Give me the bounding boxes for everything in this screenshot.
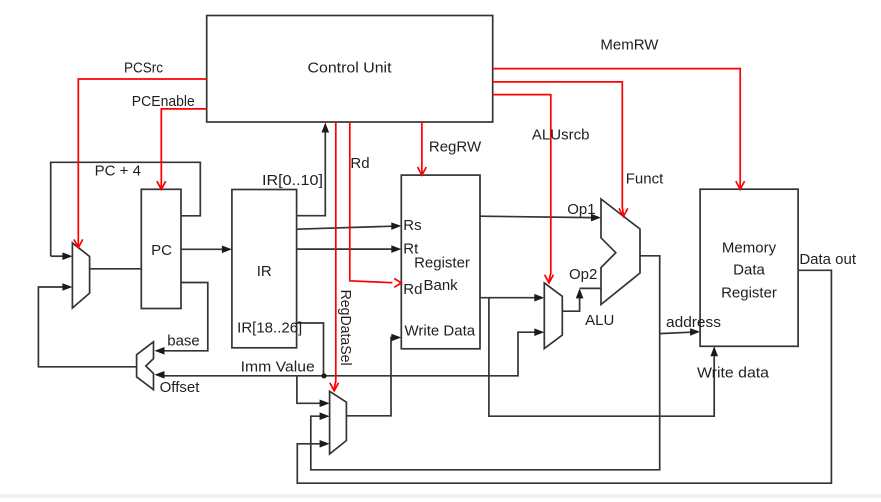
IR register box [232, 190, 297, 348]
arrowhead mux M3 input 1 [534, 294, 544, 302]
svg-text:Rd: Rd [350, 155, 369, 172]
svg-text:PC: PC [151, 242, 172, 259]
mux M2 RegDataSel mux [330, 391, 347, 454]
svg-text:Register: Register [721, 284, 777, 301]
svg-text:IR[18..26]: IR[18..26] [237, 319, 302, 336]
svg-text:ALU: ALU [585, 312, 614, 329]
svg-text:Op2: Op2 [569, 266, 597, 283]
svg-text:IR: IR [257, 263, 272, 280]
junction node on Imm Value line [321, 373, 326, 378]
memory data register box [700, 189, 798, 346]
wire Rs from IR to register bank [297, 226, 393, 229]
svg-text:Data: Data [733, 261, 765, 278]
svg-text:Imm Value: Imm Value [241, 359, 315, 376]
arrowhead adder base input [155, 347, 165, 355]
PC register box [141, 189, 181, 308]
arrowhead mux M2 output into register bank [391, 334, 401, 342]
svg-text:ALUsrcb: ALUsrcb [532, 127, 590, 144]
svg-text:RegRW: RegRW [429, 139, 482, 156]
control unit U: Control Unit box [207, 16, 493, 123]
arrowhead adder offset input [155, 371, 165, 379]
svg-text:IR[0..10]: IR[0..10] [262, 172, 323, 189]
wire RegDataSel (red) [334, 122, 336, 389]
wire write data branch to memory data register [489, 298, 714, 417]
wire Imm Value line to adder offset and to mux M3 input 2 [164, 332, 535, 376]
arrowhead mux M1 input 1 [62, 252, 72, 260]
arrowhead Funct (red open, down) [619, 208, 628, 216]
PC+4 block (open outline) [51, 162, 201, 256]
wire register bank output to mux M3 input 1 [480, 297, 535, 299]
wire Data out loop to mux M2 input 3 [297, 270, 831, 483]
arrowhead ALUsrcb (red open, down) [545, 275, 554, 283]
wire PCSrc (red) [78, 79, 206, 247]
svg-text:Offset: Offset [160, 379, 201, 396]
arrowhead PC to IR [222, 246, 232, 254]
svg-text:Op1: Op1 [567, 201, 595, 218]
svg-text:Rd: Rd [403, 281, 422, 298]
svg-text:PCEnable: PCEnable [132, 93, 195, 110]
svg-text:Bank: Bank [423, 277, 458, 294]
arrowhead Op2 up into ALU stub [576, 288, 584, 298]
svg-text:PC + 4: PC + 4 [95, 162, 141, 179]
wire PC to IR [181, 248, 223, 250]
svg-text:Funct: Funct [626, 170, 664, 187]
adder base+offset (left-pointing ALU) [137, 342, 154, 390]
arrowhead mux M1 input 2 [62, 283, 72, 291]
svg-text:address: address [666, 314, 721, 331]
wire Rd (red) [350, 122, 393, 283]
svg-text:Control Unit: Control Unit [308, 59, 393, 76]
svg-text:RegDataSel: RegDataSel [337, 290, 354, 366]
wire Funct (red) [493, 82, 624, 215]
register bank box [401, 175, 480, 349]
svg-text:PCSrc: PCSrc [124, 60, 163, 77]
arrowhead mux M2 input 1 [320, 400, 330, 408]
svg-text:Write Data: Write Data [405, 323, 476, 340]
arrowhead mux M2 input 2 [320, 412, 330, 420]
svg-text:Memory: Memory [722, 239, 777, 256]
wire Imm Value branch to mux M2 input 1 [297, 376, 321, 404]
arrowhead PCEnable (red open, down) [157, 181, 166, 189]
svg-text:Register: Register [414, 255, 470, 272]
arrowhead address into memory data register [690, 328, 700, 336]
wire ALU output down and around to mux M2 input 2 [311, 256, 660, 470]
wire adder output loop to mux M1 input 2 [38, 287, 136, 367]
svg-text:MemRW: MemRW [600, 37, 659, 54]
svg-text:Rs: Rs [403, 217, 421, 234]
wire mux M3 output to ALU Op2 [562, 288, 601, 311]
wire mux M2 output to register bank write data [346, 338, 392, 416]
wire register bank Op1 to ALU [480, 216, 592, 217]
arrowhead IR to control unit (up) [322, 123, 330, 133]
arrowhead MemRW (red open, down) [736, 181, 745, 189]
wire PC+4 to mux M1 input 1 [51, 255, 64, 257]
arrowhead RegDataSel (red open, down) [330, 383, 339, 391]
arrowhead Op1 into ALU [591, 214, 601, 222]
wire Rt from IR to register bank [297, 248, 393, 250]
mux M3 ALUsrcb mux [544, 283, 562, 349]
wire mux M1 output to PC [90, 268, 142, 270]
svg-text:Data out: Data out [799, 251, 857, 268]
wire IR[0..10] to control unit [297, 132, 326, 216]
arrowhead mux M2 input 3 [320, 440, 330, 448]
bottom gray band [0, 494, 881, 498]
wire MemRW (red) [493, 69, 741, 189]
wire PCEnable (red) [161, 109, 206, 188]
wire PC down to adder base input [164, 283, 208, 351]
svg-text:Write data: Write data [697, 365, 770, 382]
arrowhead write data up into memory data register [710, 346, 718, 356]
op-amp ALU symbol [601, 199, 640, 305]
mux M1 PCSrc mux [72, 243, 89, 308]
arrowhead Rs into register bank [391, 222, 401, 230]
wire address from ALU output to memory data register [660, 332, 691, 333]
wire RegRW (red) [421, 122, 423, 174]
arrowhead PCSrc (red open, down) [74, 239, 83, 247]
wire IR[18..26] down to Imm Value line [297, 323, 324, 376]
wire ALUsrcb (red) [493, 95, 551, 281]
arrowhead Rd (red open, right) [394, 279, 401, 288]
arrowhead Rt into register bank [391, 245, 401, 253]
arrowhead RegRW (red open, down) [418, 167, 427, 175]
svg-text:base: base [167, 332, 200, 349]
arrowhead mux M3 input 2 [534, 328, 544, 336]
